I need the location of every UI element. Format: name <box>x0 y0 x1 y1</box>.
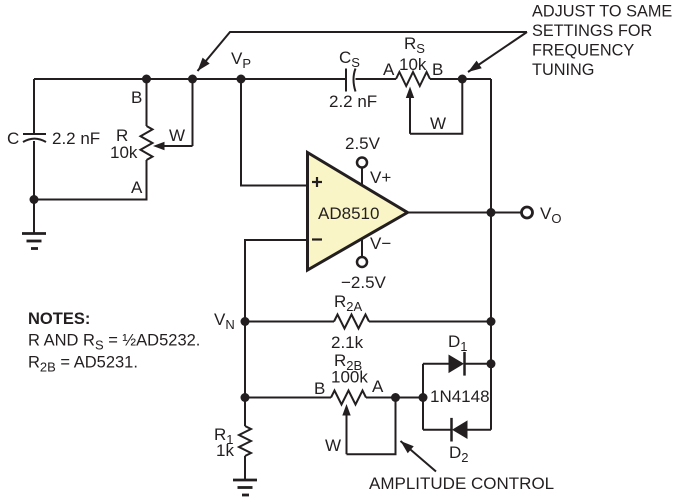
wire: left vertical from top net down to capacitor C top plate <box>33 79 35 134</box>
svg-text:10k: 10k <box>110 143 138 162</box>
svg-text:SETTINGS FOR: SETTINGS FOR <box>532 22 652 40</box>
svg-text:VP: VP <box>231 49 251 71</box>
wire: D1 anode lead <box>423 363 449 365</box>
wire: Rs wiper W loop to terminal B junction <box>410 79 462 134</box>
resistor R1 1k <box>239 426 251 456</box>
ground (below capacitor C) <box>22 200 46 249</box>
svg-text:A: A <box>383 60 395 79</box>
pin V+ of op-amp with supply terminal circle <box>357 158 367 186</box>
wire: top horizontal net from C to Cs left plate <box>34 78 346 80</box>
svg-text:B: B <box>314 379 325 398</box>
svg-text:V−: V− <box>370 234 391 253</box>
svg-text:A: A <box>372 377 384 396</box>
wire: op-amp - input left and down to node Vn <box>245 240 308 322</box>
ground (below R1) <box>233 456 257 495</box>
svg-text:W: W <box>325 436 341 455</box>
svg-text:2.2 nF: 2.2 nF <box>52 129 100 148</box>
junction: R2b wiper tie to terminal A <box>391 393 400 402</box>
svg-text:R2A: R2A <box>334 292 363 314</box>
svg-text:RS: RS <box>404 34 425 56</box>
junction: node Vn <box>241 317 250 326</box>
wiper arrow of potentiometer R <box>153 142 193 150</box>
annotation arrow: amplitude control pointing at R2b wiper loop <box>401 441 437 472</box>
potentiometer R 10k <box>141 126 153 160</box>
wire: node Vn down to R2b node <box>244 322 246 398</box>
output terminal circle Vo <box>522 207 533 218</box>
svg-text:AMPLITUDE CONTROL: AMPLITUDE CONTROL <box>369 474 554 493</box>
junction: node Vp <box>237 75 246 84</box>
diode D2 1N4148 <box>452 418 468 442</box>
annotation arrow: to Vp-area junction for frequency tuning <box>198 32 528 71</box>
svg-text:V+: V+ <box>370 168 391 187</box>
svg-text:A: A <box>131 178 143 197</box>
wire: R2b terminal A to diode bridge <box>366 397 423 399</box>
wire: R2a right lead to right vertical bus <box>369 321 491 323</box>
notes text block <box>28 310 200 375</box>
wire: D2 anode lead from right vertical bus <box>467 429 491 431</box>
svg-text:100k: 100k <box>331 368 368 387</box>
wiper arrow of potentiometer R2b <box>342 404 350 454</box>
pin V- of op-amp with supply terminal circle <box>357 239 367 267</box>
svg-text:D2: D2 <box>449 443 469 465</box>
wire: R2b left lead (terminal B) <box>245 397 331 399</box>
junction: top net / R wiper <box>188 75 197 84</box>
potentiometer R2b 100k <box>331 391 366 405</box>
svg-text:VN: VN <box>214 310 235 332</box>
svg-text:B: B <box>432 60 443 79</box>
wire: R terminal B lead up to top net <box>146 79 148 126</box>
svg-text:2.5V: 2.5V <box>345 134 381 153</box>
wire: bottom of left RC loop from ground node to R terminal A <box>34 160 147 200</box>
svg-text:R AND RS = ½AD5232.: R AND RS = ½AD5232. <box>28 332 200 353</box>
wire: R2a left lead from node Vn <box>245 321 334 323</box>
wire: R wiper W up to top net <box>192 79 194 146</box>
annotation arrow: to Rs terminal B junction for frequency tuning <box>468 32 527 72</box>
svg-text:B: B <box>131 88 142 107</box>
svg-text:D1: D1 <box>448 332 468 354</box>
svg-text:1k: 1k <box>216 441 234 460</box>
junction: D1 cathode at bus <box>487 359 496 368</box>
svg-text:ADJUST TO SAME: ADJUST TO SAME <box>532 3 672 21</box>
svg-text:10k: 10k <box>399 55 427 74</box>
wire: D2 cathode lead to diode bridge left vertical <box>423 429 452 431</box>
capacitor C <box>23 134 46 142</box>
wire: diode bridge left vertical <box>422 364 424 430</box>
svg-text:NOTES:: NOTES: <box>28 310 90 328</box>
wire: capacitor C bottom plate to ground node <box>33 141 35 200</box>
junction: R2b terminal B node <box>241 393 250 402</box>
node Vp: vertical wire from top net down to op-amp + input <box>241 79 308 186</box>
junction: ground node below C <box>30 195 39 204</box>
svg-text:1N4148: 1N4148 <box>430 387 490 406</box>
wire: R2b wiper W loop up to node after terminal A <box>347 398 396 455</box>
wiper arrow of potentiometer Rs <box>406 87 414 134</box>
capacitor Cs <box>346 69 356 92</box>
svg-text:W: W <box>430 114 446 133</box>
wire: op-amp output to Vo terminal <box>408 212 522 214</box>
wire: Cs right plate to Rs terminal A <box>356 78 397 80</box>
junction: R2a right at bus <box>487 317 496 326</box>
wire: D1 cathode lead to right vertical bus <box>465 363 492 365</box>
svg-text:CS: CS <box>339 48 360 70</box>
svg-text:AD8510: AD8510 <box>318 204 379 223</box>
svg-text:FREQUENCY: FREQUENCY <box>532 42 634 60</box>
potentiometer Rs 10k <box>396 72 430 86</box>
wire: R1 top lead from R2b node <box>244 398 246 427</box>
junction: Rs terminal B <box>458 75 467 84</box>
wire: Rs terminal B to right vertical bus <box>430 78 491 80</box>
annotation text: adjust to same settings for frequency tuning <box>532 3 672 80</box>
svg-text:−2.5V: −2.5V <box>341 273 387 292</box>
svg-text:TUNING: TUNING <box>532 61 594 79</box>
op-amp U1 AD8510 <box>308 153 408 271</box>
resistor R2a 2.1k <box>334 315 369 329</box>
pin marker: op-amp - input <box>312 238 322 240</box>
junction: top net / R terminal B <box>142 75 151 84</box>
pin marker: op-amp + input <box>312 177 322 187</box>
svg-text:VO: VO <box>540 204 561 226</box>
svg-text:R2B = AD5231.: R2B = AD5231. <box>28 354 138 375</box>
junction: terminal A to diode bridge <box>419 393 428 402</box>
wire: right vertical bus from Rs B down to diode D2 branch <box>490 79 492 430</box>
junction: output at right vertical bus <box>487 208 496 217</box>
svg-text:2.2 nF: 2.2 nF <box>329 92 377 111</box>
svg-text:C: C <box>7 129 19 148</box>
diode D1 1N4148 <box>449 352 465 376</box>
svg-text:2.1k: 2.1k <box>331 333 364 352</box>
svg-text:W: W <box>169 126 185 145</box>
